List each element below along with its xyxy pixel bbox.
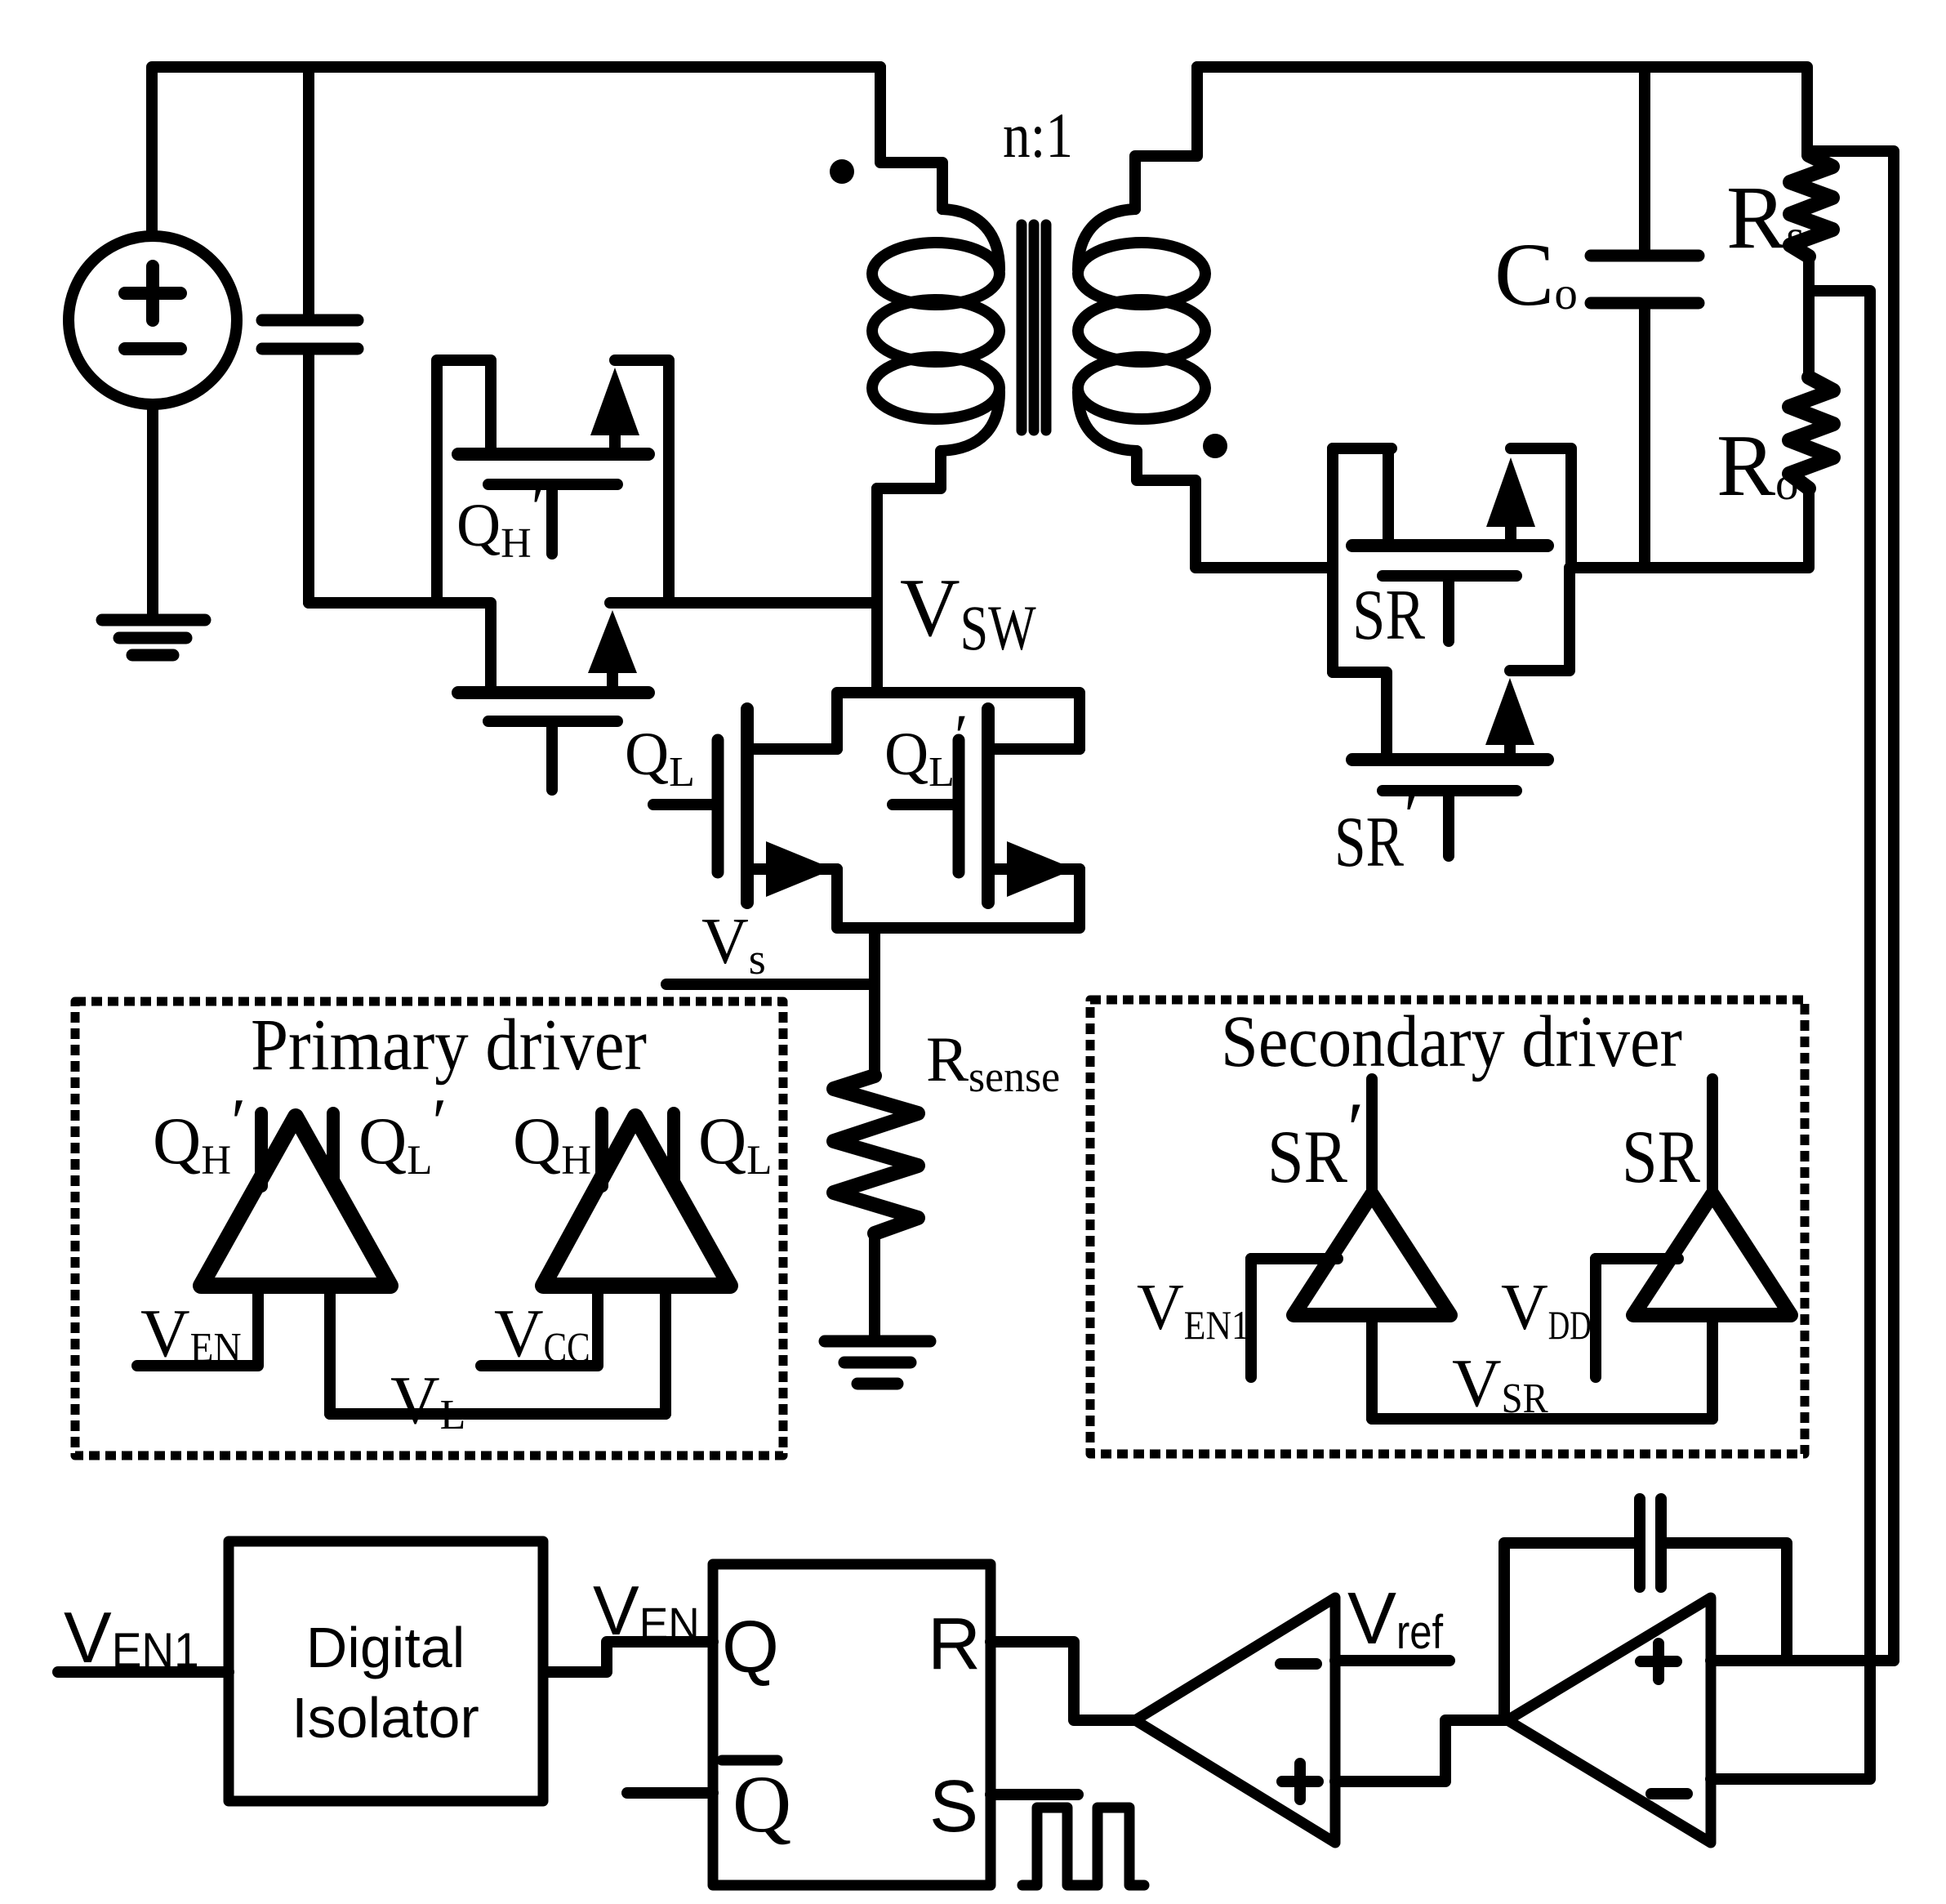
digital isolator box <box>229 1541 543 1801</box>
transistor QL' <box>893 709 1080 903</box>
svg-text:Rsense: Rsense <box>926 1023 1060 1101</box>
svg-text:QL: QL <box>625 720 695 796</box>
svg-text:VCC: VCC <box>494 1295 590 1371</box>
resistor Rs <box>1790 155 1832 256</box>
svg-text:QL: QL <box>698 1104 772 1184</box>
svg-text:QH′: QH′ <box>153 1085 246 1184</box>
op-amp U7 <box>1507 1598 1711 1843</box>
transistor SR' <box>1333 568 1570 856</box>
wire VL <box>330 1408 666 1420</box>
svg-text:n:1: n:1 <box>1003 100 1073 171</box>
transistor QH' <box>437 360 669 603</box>
ground (under source) <box>102 620 205 655</box>
svg-text:S: S <box>929 1766 978 1848</box>
capacitor Cin <box>262 67 358 603</box>
wire secondary top rail <box>1197 67 1807 155</box>
svg-text:SR: SR <box>1622 1115 1701 1198</box>
svg-text:Q: Q <box>733 1759 791 1849</box>
svg-text:Co: Co <box>1494 225 1578 324</box>
wire QL drain lead <box>753 743 837 755</box>
wire comp1 plus to opamp U7 <box>1335 1720 1507 1781</box>
wire sense node A (Rs top to comp2 plus) <box>1809 151 1894 1661</box>
capacitor Co <box>1591 67 1699 568</box>
wire secondary bottom rail <box>1571 507 1809 568</box>
capacitor Cf feedback <box>1504 1499 1787 1720</box>
transistor SR <box>1333 448 1571 672</box>
wire Qbar input lead <box>627 1787 713 1799</box>
svg-text:Primary driver: Primary driver <box>251 1005 647 1086</box>
ground (under Rsense) <box>825 1341 930 1384</box>
pulse waveform symbol <box>1022 1808 1144 1885</box>
svg-text:VEN1: VEN1 <box>64 1597 199 1678</box>
transformer T1 core <box>1022 225 1046 430</box>
svg-text:SR′: SR′ <box>1334 777 1419 882</box>
svg-text:VEN: VEN <box>593 1572 700 1650</box>
secondary driver box <box>1090 1000 1805 1454</box>
svg-text:QL′: QL′ <box>358 1085 447 1184</box>
svg-text:SR′: SR′ <box>1267 1087 1364 1198</box>
svg-text:Vs: Vs <box>701 906 766 983</box>
wire Rsense to ground <box>869 1233 880 1338</box>
svg-text:SR: SR <box>1352 576 1425 655</box>
node VEN1 input lead <box>58 1666 229 1678</box>
transistor QL <box>653 709 837 903</box>
label Qbar <box>722 1755 777 1766</box>
wire Rs to Ro <box>1803 256 1815 377</box>
svg-text:Q: Q <box>722 1607 779 1688</box>
svg-text:QH: QH <box>513 1104 591 1184</box>
buffer U1 (QH' QL' driver) <box>137 1113 390 1414</box>
primary driver box <box>75 1001 783 1456</box>
buffer U2 (QH QL driver) <box>481 1113 730 1414</box>
wire S input lead <box>991 1789 1078 1800</box>
transistor QH <box>458 610 648 790</box>
svg-text:R: R <box>928 1603 981 1685</box>
transformer T1 primary winding <box>872 67 1000 488</box>
transformer T1 primary dot <box>830 159 854 184</box>
wire VEN (isolator to flipflop) <box>544 1642 713 1672</box>
wire node cap to QH stack <box>309 603 491 693</box>
svg-text:VDD: VDD <box>1501 1272 1592 1348</box>
resistor Rsense <box>834 1076 918 1233</box>
transformer T1 secondary winding <box>1078 67 1333 568</box>
wire Vref lead <box>1335 1655 1449 1666</box>
wire opamp plus lead <box>1711 1655 1894 1666</box>
wire VSR <box>1372 1413 1712 1425</box>
wire R to comparator U6 <box>991 1642 1135 1720</box>
wire primary top rail <box>152 67 880 234</box>
resistor Ro <box>1789 377 1833 488</box>
buffer U3 (SR' driver) <box>1251 1079 1450 1419</box>
wire QL QL' top <box>837 693 1080 749</box>
wire VSW vertical (transformer bottom lead) <box>871 488 883 693</box>
svg-text:Isolator: Isolator <box>292 1686 479 1750</box>
flip-flop U5 <box>713 1564 991 1885</box>
svg-text:VSR: VSR <box>1452 1345 1548 1422</box>
svg-text:Ro: Ro <box>1717 417 1799 515</box>
svg-text:VEN: VEN <box>140 1295 242 1371</box>
svg-text:VL: VL <box>390 1362 465 1438</box>
svg-text:VEN1: VEN1 <box>1137 1272 1249 1348</box>
wire QL QL' bottom <box>837 869 1080 928</box>
node Vs <box>666 928 875 1076</box>
voltage source Vin <box>69 236 237 619</box>
svg-text:VSW: VSW <box>900 562 1036 663</box>
svg-text:Digital: Digital <box>306 1616 465 1679</box>
wire node VSW horizontal <box>610 597 877 609</box>
buffer U4 (SR driver) <box>1596 1079 1791 1419</box>
transformer T1 secondary dot <box>1203 434 1227 458</box>
wire Ro bottom <box>1803 488 1815 507</box>
comparator U6 <box>1135 1598 1335 1843</box>
svg-text:Secondary driver: Secondary driver <box>1221 1001 1682 1082</box>
svg-text:Vref: Vref <box>1347 1578 1444 1660</box>
wire sense node B (Rs bottom to comp2 minus) <box>1711 291 1870 1779</box>
wire QL' drain lead <box>994 743 1080 755</box>
